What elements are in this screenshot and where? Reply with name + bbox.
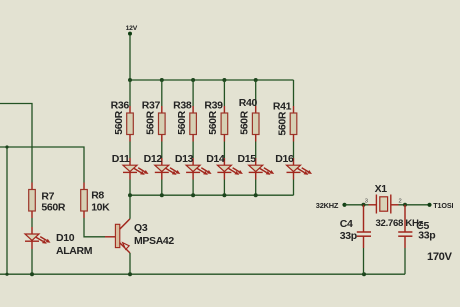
svg-text:R40: R40 <box>239 97 258 109</box>
svg-text:560R: 560R <box>145 110 157 134</box>
svg-text:560R: 560R <box>113 110 125 134</box>
wire D15 to bus <box>255 180 257 196</box>
svg-text:3: 3 <box>365 199 368 205</box>
junction ground left vertical <box>5 273 8 276</box>
junction bus D15 <box>254 193 258 197</box>
svg-text:D12: D12 <box>144 153 163 165</box>
wire 12V down to rail <box>129 35 131 80</box>
wire left top horizontal <box>0 104 32 183</box>
junction bus D14 <box>222 193 226 197</box>
svg-text:D13: D13 <box>175 153 194 165</box>
svg-text:D15: D15 <box>238 153 257 165</box>
junction C4 top <box>362 203 366 207</box>
svg-text:170V: 170V <box>427 251 452 263</box>
svg-text:D10: D10 <box>56 232 75 244</box>
svg-text:32KHZ: 32KHZ <box>316 201 339 210</box>
resistor R39 <box>204 99 227 141</box>
svg-text:2: 2 <box>399 199 402 205</box>
wire rail to R36 <box>129 80 131 106</box>
svg-text:Q3: Q3 <box>134 222 148 234</box>
wire Q3 collector to bus <box>129 195 131 219</box>
svg-text:MPSA42: MPSA42 <box>134 235 174 247</box>
junction rail R37 <box>160 78 164 82</box>
LED D12 <box>144 153 181 180</box>
power terminal dot <box>128 32 132 36</box>
node 32KHZ label <box>316 201 339 210</box>
svg-text:R36: R36 <box>111 99 130 111</box>
wire top supply rail <box>129 79 293 81</box>
junction bus D11/Q3 <box>128 193 132 197</box>
svg-text:C4: C4 <box>340 218 353 230</box>
resistor R36 <box>111 99 134 141</box>
wire D16 to bus <box>293 180 295 196</box>
svg-text:D16: D16 <box>275 153 294 165</box>
terminal 32KHZ <box>342 203 346 207</box>
junction rail R40 <box>254 78 258 82</box>
junction bus D13 <box>191 193 195 197</box>
wire rail corner to R41 <box>293 80 295 106</box>
svg-text:560R: 560R <box>176 110 188 134</box>
wire D10 to ground bus <box>31 249 33 274</box>
resistor R41 <box>273 100 297 141</box>
resistor R8 <box>81 183 110 219</box>
junction left edge <box>5 145 8 148</box>
resistor R38 <box>173 99 196 141</box>
transistor Q3 <box>105 219 174 253</box>
resistor R40 <box>239 97 260 142</box>
wire R38 to D13 <box>192 142 194 159</box>
LED D15 <box>238 153 275 180</box>
capacitor C4 <box>340 205 371 248</box>
power label 12V <box>126 25 138 32</box>
wire rail to R37 <box>161 80 163 106</box>
junction rail R38 <box>191 78 195 82</box>
junction C5 top <box>403 203 407 207</box>
wire rail to R40 <box>255 80 257 106</box>
wire R7 to D10 <box>31 218 33 227</box>
node T1OSI label <box>433 201 453 210</box>
junction ground D10 <box>30 272 34 276</box>
svg-text:12V: 12V <box>126 25 138 32</box>
svg-text:10K: 10K <box>91 201 110 213</box>
svg-text:X1: X1 <box>375 183 388 195</box>
wire 32KHZ to crystal <box>345 204 369 206</box>
wire R8 to Q3 base <box>84 218 105 237</box>
wire D12 to bus <box>161 180 163 196</box>
capacitor C5 <box>398 205 435 248</box>
wire D11 to bus <box>129 180 131 196</box>
wire bottom ground bus <box>0 273 405 275</box>
junction bus D12 <box>160 193 164 197</box>
svg-text:33p: 33p <box>340 230 357 242</box>
svg-text:R37: R37 <box>142 99 161 111</box>
LED D10 alarm <box>25 227 93 257</box>
svg-text:T1OSI: T1OSI <box>433 201 453 210</box>
wire Q3 emitter to ground bus <box>129 253 131 274</box>
LED D13 <box>175 153 212 180</box>
wire cathode bus <box>130 194 294 196</box>
svg-text:560R: 560R <box>207 110 219 134</box>
terminal T1OSI <box>427 203 431 207</box>
svg-text:R8: R8 <box>91 190 104 202</box>
crystal X1 <box>369 183 424 229</box>
wire rail to R38 <box>192 80 194 106</box>
wire R36 to D11 <box>129 142 131 159</box>
LED D14 <box>206 153 243 180</box>
wire R40 to D15 <box>255 142 257 159</box>
text 170V <box>427 251 452 263</box>
wire R41 to D16 <box>293 142 295 159</box>
wire R37 to D12 <box>161 142 163 159</box>
svg-text:560R: 560R <box>276 111 288 135</box>
svg-text:D11: D11 <box>112 153 130 165</box>
wire D13 to bus <box>192 180 194 196</box>
svg-text:ALARM: ALARM <box>56 245 93 257</box>
wire rail to R39 <box>223 80 225 106</box>
svg-text:R41: R41 <box>273 100 292 112</box>
wire R39 to D14 <box>223 142 225 159</box>
wire D14 to bus <box>223 180 225 196</box>
junction at 12V feed <box>128 78 132 82</box>
wire crystal to T1OSI <box>399 204 430 206</box>
resistor R37 <box>142 99 165 141</box>
pin 2 <box>399 199 402 205</box>
wire C4 to ground <box>363 248 365 274</box>
LED D11 <box>112 153 149 180</box>
wire left mid horizontal <box>0 147 84 183</box>
wire left edge vertical <box>6 147 8 274</box>
pin 3 <box>365 199 368 205</box>
svg-text:D14: D14 <box>206 153 225 165</box>
svg-text:R39: R39 <box>204 99 223 111</box>
svg-text:33p: 33p <box>418 230 435 242</box>
junction ground Q3 <box>128 272 132 276</box>
LED D16 <box>275 153 312 180</box>
svg-text:560R: 560R <box>41 201 65 213</box>
junction rail R39 <box>222 78 226 82</box>
svg-text:560R: 560R <box>239 110 251 134</box>
resistor R7 <box>29 183 66 219</box>
wire C5 to ground <box>404 248 406 274</box>
junction ground C4 <box>362 272 366 276</box>
svg-text:R38: R38 <box>173 99 192 111</box>
